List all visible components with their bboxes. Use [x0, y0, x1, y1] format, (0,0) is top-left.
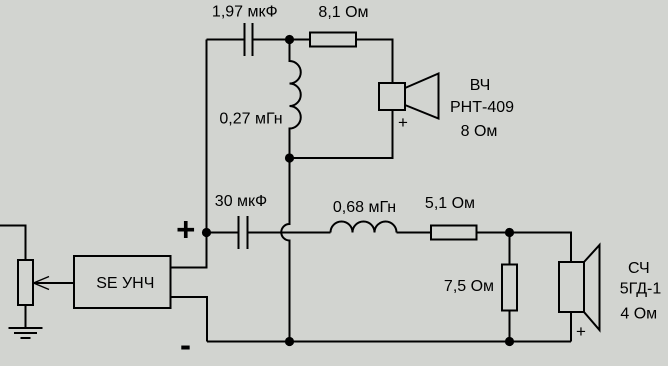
ground [9, 328, 43, 338]
resistor R1 8,1 Om body [310, 33, 356, 47]
potentiometer wiper arrow [34, 277, 50, 290]
wire mid rail node C to capacitor C2 [207, 232, 238, 234]
svg-text:8 Ом: 8 Ом [461, 123, 498, 140]
svg-text:-: - [180, 326, 191, 363]
wire amp output - [171, 297, 208, 342]
svg-text:+: + [398, 113, 408, 132]
svg-text:5,1 Ом: 5,1 Ом [425, 195, 475, 212]
inductor L2 0,68 mGn [331, 222, 397, 233]
svg-text:ВЧ: ВЧ [470, 77, 491, 94]
wire node D to resistor R3 [509, 233, 511, 265]
inductor L1 0,27 mGn [290, 40, 301, 159]
node A junction dot [285, 35, 294, 44]
node B junction dot [285, 153, 294, 162]
wire bottom rail [207, 341, 571, 343]
wire pot bottom to ground [25, 305, 27, 328]
svg-text:SE УНЧ: SE УНЧ [96, 275, 154, 292]
node D junction dot [505, 228, 514, 237]
wire node D to woofer [510, 233, 572, 263]
tweeter BA1 box [379, 83, 405, 110]
woofer BA2 cone [584, 245, 600, 330]
wire capacitor C2 to inductor L2 [249, 232, 331, 234]
wire left branch vertical [206, 40, 208, 233]
svg-text:+: + [176, 211, 195, 248]
wire node B down with hop over mid rail [281, 158, 289, 342]
svg-text:0,68 мГн: 0,68 мГн [333, 199, 396, 216]
resistor R2 5,1 Om body [431, 226, 477, 240]
wire input top-left horizontal [0, 226, 26, 261]
node F junction dot bottom right [505, 337, 514, 346]
svg-text:+: + [576, 322, 586, 341]
wire capacitor C1 to node A [254, 39, 311, 41]
node C junction dot [202, 228, 211, 237]
svg-text:30 мкФ: 30 мкФ [215, 193, 267, 210]
wire tweeter to node B [290, 110, 393, 158]
svg-text:СЧ: СЧ [628, 260, 650, 277]
wire R3 to bottom rail [509, 311, 511, 342]
wire R2 to node D [477, 232, 510, 234]
svg-text:1,97 мкФ: 1,97 мкФ [212, 4, 278, 21]
tweeter BA1 cone [405, 74, 439, 119]
woofer BA2 box [559, 262, 584, 312]
svg-text:5ГД-1: 5ГД-1 [620, 281, 662, 298]
wire amp output + [171, 233, 207, 268]
svg-text:РНТ-409: РНТ-409 [450, 99, 514, 116]
svg-text:8,1 Ом: 8,1 Ом [318, 4, 368, 21]
capacitor C2 30 mkF [239, 216, 248, 249]
svg-text:7,5 Ом: 7,5 Ом [444, 278, 494, 295]
wire R1 to tweeter [356, 40, 393, 84]
wire woofer to bottom rail [570, 312, 572, 342]
svg-text:0,27 мГн: 0,27 мГн [219, 111, 282, 128]
resistor R3 7,5 Om body [502, 265, 517, 311]
node E junction dot bottom left [285, 337, 294, 346]
wire inductor L2 to resistor R2 [397, 232, 432, 234]
amplifier U1 box [74, 256, 171, 308]
potentiometer R-vol body [18, 260, 33, 305]
wire wiper to amplifier [34, 282, 74, 284]
capacitor C1 1,97 mkF [245, 23, 253, 56]
svg-text:4 Ом: 4 Ом [620, 306, 657, 323]
wire top to capacitor C1 [207, 39, 244, 41]
